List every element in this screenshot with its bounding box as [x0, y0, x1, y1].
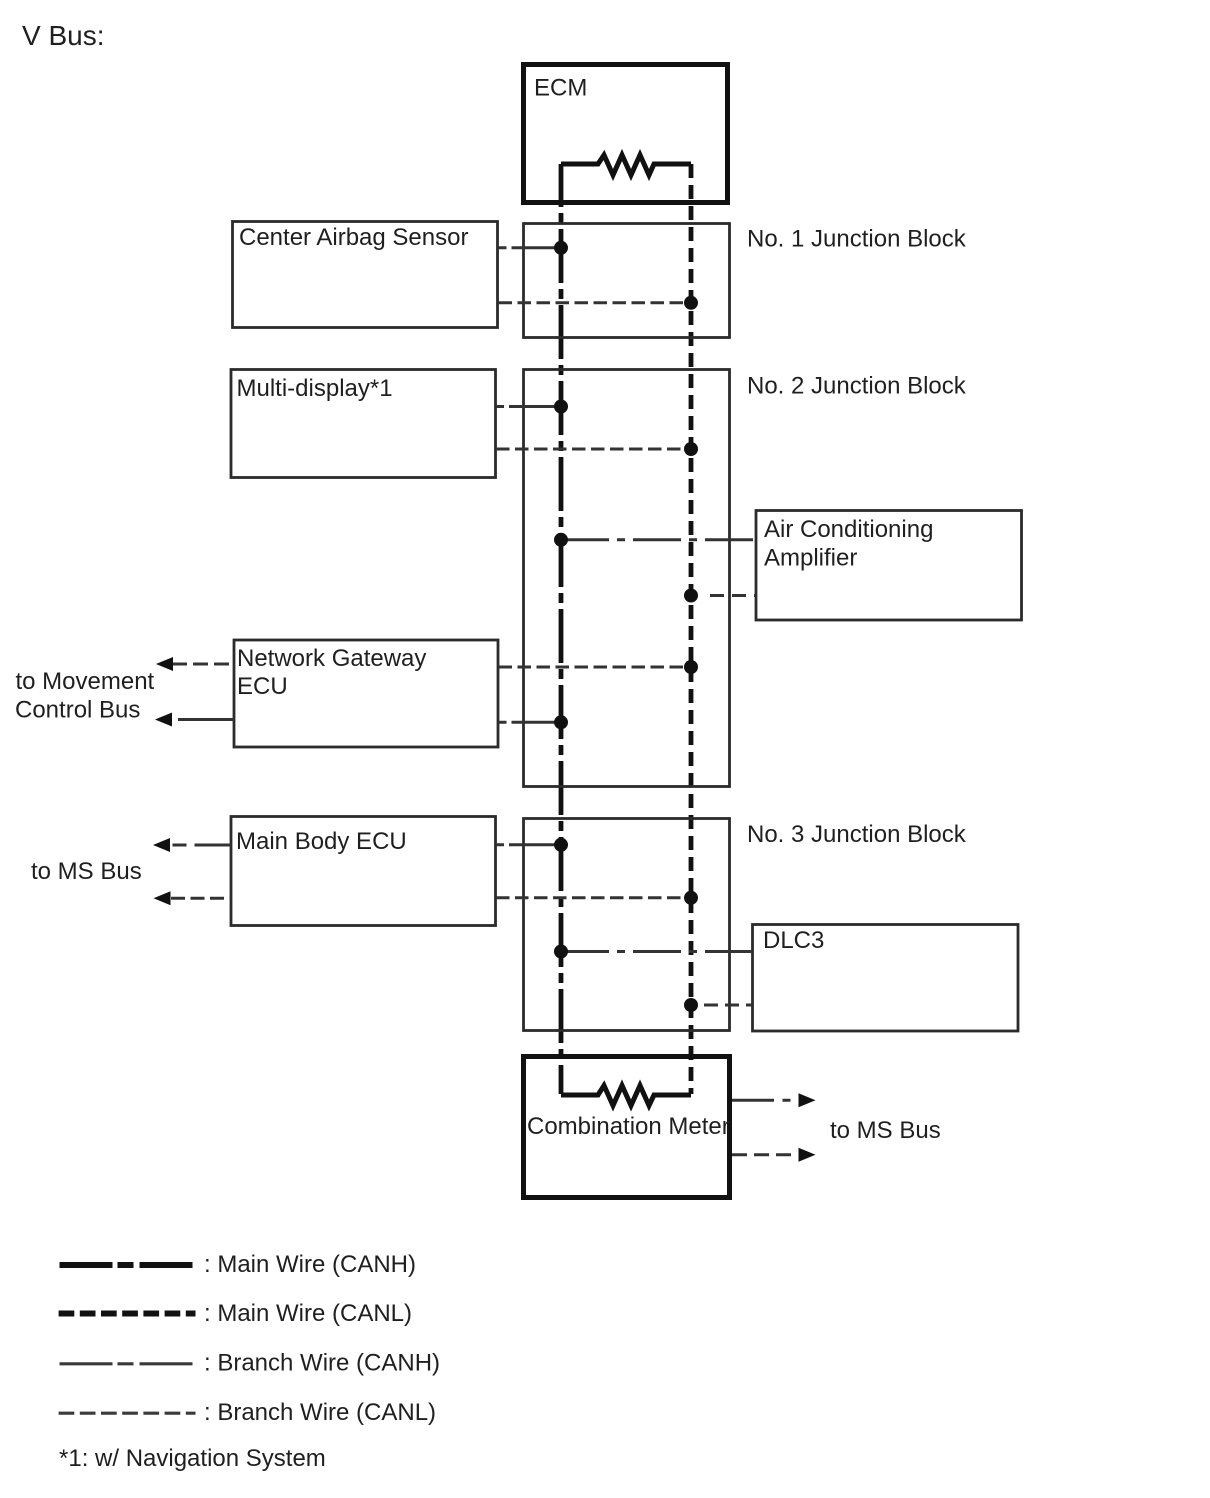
svg-text:: Main Wire (CANL): : Main Wire (CANL): [204, 1300, 412, 1327]
Center Airbag Sensor box: [233, 222, 498, 328]
svg-text:Combination Meter: Combination Meter: [527, 1113, 730, 1140]
node junction dot CANL/DLC3: [684, 998, 698, 1012]
Network Gateway ECU box: [234, 640, 498, 747]
svg-text:No. 2 Junction Block: No. 2 Junction Block: [747, 373, 967, 400]
node junction dot CANH/MB: [554, 838, 568, 852]
wire CANH arrow to MS Bus left: [173, 844, 232, 847]
wire branch CANL Network Gateway: [499, 666, 686, 669]
svg-text:Control Bus: Control Bus: [15, 697, 140, 724]
wire CANL arrow to MS Bus left: [171, 897, 231, 900]
legend Main Wire CANH: [60, 1262, 194, 1268]
junction block No.2 box: [524, 370, 730, 787]
wire branch CANH Center Airbag Sensor: [499, 246, 562, 249]
node junction dot CANL/MB: [684, 891, 698, 905]
node junction dot CANL/CAS: [684, 296, 698, 310]
node junction dot CANH/MD: [554, 400, 568, 414]
wire branch CANH Network Gateway: [499, 721, 562, 724]
svg-text:Center Airbag Sensor: Center Airbag Sensor: [239, 224, 468, 251]
junction block No.3 box: [524, 819, 730, 1031]
node junction dot CANL/NG: [684, 660, 698, 674]
svg-text:Main Body ECU: Main Body ECU: [236, 828, 407, 855]
Combination Meter box: [524, 1057, 730, 1198]
wire branch CANH DLC3: [561, 950, 753, 953]
svg-text:V Bus:: V Bus:: [22, 20, 104, 51]
wire dashed arrow to Movement Control Bus: [172, 663, 234, 666]
svg-text:*1: w/ Navigation System: *1: w/ Navigation System: [59, 1445, 326, 1472]
node junction dot CANH/AC: [554, 533, 568, 547]
wire main CANL vertical bus: [689, 164, 694, 1094]
node junction dot CANH/CAS: [554, 241, 568, 255]
junction block No.1 box: [524, 224, 730, 338]
svg-text:DLC3: DLC3: [763, 927, 824, 954]
node junction dot CANH/NG: [554, 715, 568, 729]
wire branch CANH Main Body: [496, 843, 561, 846]
wire branch CANL DLC3: [704, 1004, 753, 1007]
resistor in Combination Meter: [561, 1086, 691, 1106]
Main Body ECU box: [231, 817, 496, 926]
node junction dot CANL/AC: [684, 589, 698, 603]
svg-text:: Main Wire (CANH): : Main Wire (CANH): [204, 1251, 416, 1278]
Air Conditioning Amplifier box: [756, 511, 1022, 621]
wire branch CANH Air Conditioning Amplifier: [561, 538, 756, 541]
legend Branch Wire CANH: [60, 1362, 194, 1365]
DLC3 box: [753, 925, 1019, 1032]
wire branch CANL Air Conditioning Amplifier: [710, 594, 756, 597]
svg-text:ECM: ECM: [534, 75, 587, 102]
wire branch CANL Multi-display: [496, 448, 685, 451]
ECM box: [524, 65, 728, 203]
svg-text:: Branch Wire (CANL): : Branch Wire (CANL): [204, 1399, 436, 1426]
svg-text:to MS Bus: to MS Bus: [31, 858, 142, 885]
Multi-display box: [231, 370, 496, 478]
svg-text:to MS Bus: to MS Bus: [830, 1117, 941, 1144]
wire main CANH vertical bus: [559, 164, 564, 1094]
wire branch CANL Center Airbag Sensor: [499, 301, 686, 304]
wire solid arrow to Movement Control Bus: [178, 718, 234, 721]
node junction dot CANL/MD: [684, 442, 698, 456]
legend Branch Wire CANL: [59, 1412, 196, 1415]
wire CANL arrow to MS Bus right: [732, 1153, 798, 1156]
resistor in ECM: [561, 155, 691, 175]
wire branch CANL Main Body: [496, 896, 685, 899]
svg-text:No. 3 Junction Block: No. 3 Junction Block: [747, 821, 967, 848]
wire branch CANH Multi-display: [496, 405, 561, 408]
legend Main Wire CANL: [59, 1311, 196, 1317]
svg-text:: Branch Wire (CANH): : Branch Wire (CANH): [204, 1350, 440, 1377]
node junction dot CANH/DLC3: [554, 945, 568, 959]
svg-text:Multi-display*1: Multi-display*1: [237, 375, 393, 402]
wire CANH arrow to MS Bus right: [732, 1099, 798, 1102]
svg-text:to Movement: to Movement: [16, 668, 155, 695]
svg-text:No. 1 Junction Block: No. 1 Junction Block: [747, 226, 967, 253]
